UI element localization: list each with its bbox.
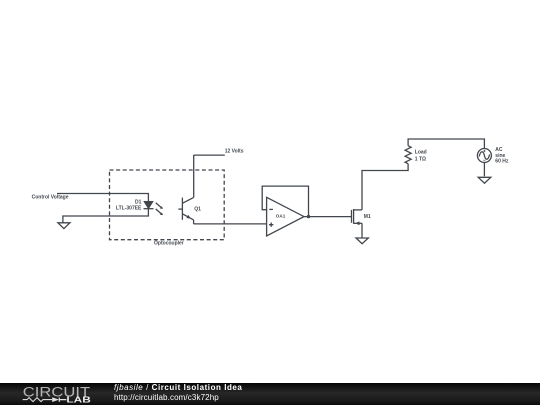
wire emitter down <box>193 220 195 224</box>
wire drain up to load <box>362 164 408 210</box>
value label 1 TOhm <box>415 156 426 162</box>
label AC sine 60 Hz <box>495 147 509 165</box>
voltage source V1 (AC sine) <box>477 149 491 163</box>
wire source to ground <box>361 223 363 237</box>
transistor M1 (NMOS) <box>352 209 363 225</box>
wire 12 Volts net <box>194 154 225 156</box>
svg-text:Load: Load <box>415 150 427 156</box>
label OA1 <box>276 213 286 218</box>
svg-text:1 TΩ: 1 TΩ <box>415 156 426 162</box>
label Load <box>415 150 427 156</box>
op-amp OA1 <box>267 197 304 236</box>
ground (control side) <box>58 223 70 229</box>
transistor Q1 (NPN phototransistor) <box>178 197 193 220</box>
diode D1 LTL-307EE (LED) <box>144 202 164 216</box>
junction output node <box>307 215 310 218</box>
wire LED cathode down and left to ground <box>63 209 148 223</box>
wire control voltage to LED anode <box>57 194 148 202</box>
wire emitter to op-amp non-inverting input <box>194 223 267 225</box>
wire feedback minus input <box>262 186 308 217</box>
svg-text:M1: M1 <box>364 214 371 220</box>
url line <box>114 394 219 402</box>
label M1 <box>364 214 371 220</box>
label D1 <box>135 200 142 206</box>
wire op-amp output <box>304 216 351 218</box>
node label Control Voltage <box>32 195 69 201</box>
svg-text:LAB: LAB <box>66 396 91 405</box>
svg-text:Optocoupler: Optocoupler <box>154 241 184 247</box>
wire AC source to ground <box>483 163 485 177</box>
svg-text:60 Hz: 60 Hz <box>495 159 509 165</box>
resistor Load 1 TOhm <box>405 146 411 164</box>
ground (source of M1) <box>356 238 368 244</box>
wire load top to AC source <box>408 139 484 149</box>
svg-text:LTL-307EE: LTL-307EE <box>116 205 142 211</box>
svg-text:12 Volts: 12 Volts <box>225 149 244 155</box>
label Optocoupler <box>154 241 184 247</box>
optocoupler dashed box <box>110 170 225 240</box>
wire collector up <box>193 155 195 197</box>
CircuitLab logo <box>0 383 110 405</box>
svg-text:OA1: OA1 <box>276 213 286 218</box>
label Q1 <box>194 206 201 212</box>
title line <box>114 384 242 392</box>
node label 12 Volts <box>225 149 244 155</box>
svg-text:Q1: Q1 <box>194 206 201 212</box>
ground (AC source) <box>478 177 491 183</box>
svg-text:Control Voltage: Control Voltage <box>32 195 69 201</box>
value label LTL-307EE <box>116 205 142 211</box>
